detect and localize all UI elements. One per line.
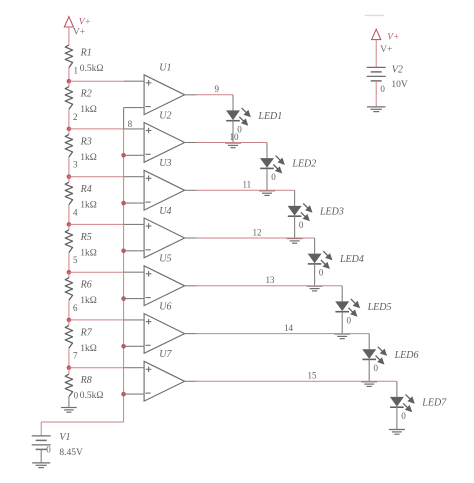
svg-text:0: 0 [271, 172, 276, 182]
svg-text:U3: U3 [159, 158, 171, 169]
svg-text:1kΩ: 1kΩ [80, 248, 97, 258]
svg-text:0.5kΩ: 0.5kΩ [80, 391, 104, 401]
pin - input U2 [124, 154, 145, 156]
ground (V2) [367, 106, 386, 108]
svg-text:14: 14 [284, 323, 294, 333]
wire node 1 to U1 [69, 80, 124, 82]
LED light arrows [303, 203, 309, 209]
svg-text:R5: R5 [80, 232, 92, 243]
wire net 12 [197, 237, 315, 239]
wire [68, 397, 70, 408]
page border mark [365, 14, 385, 16]
svg-text:8.45V: 8.45V [59, 448, 83, 458]
svg-text:6: 6 [73, 303, 78, 313]
LED triangle [362, 349, 376, 359]
LED light arrows [378, 347, 384, 353]
svg-text:0: 0 [380, 84, 385, 94]
battery V1 [40, 422, 42, 436]
svg-text:0.5kΩ: 0.5kΩ [80, 64, 104, 74]
svg-text:1kΩ: 1kΩ [80, 296, 97, 306]
wire node 4 to U4 [69, 223, 124, 225]
wire [68, 300, 70, 320]
wire (anode pin) [294, 190, 296, 206]
wire (cathode pin) [266, 168, 268, 190]
wire (anode pin) [396, 381, 398, 397]
op-amp U5 [144, 266, 185, 306]
pin + input U7 [124, 367, 145, 369]
svg-text:0: 0 [74, 390, 79, 400]
svg-text:R7: R7 [80, 327, 93, 338]
pin + input U6 [124, 319, 145, 321]
wire (cathode pin) [314, 264, 316, 286]
svg-text:1: 1 [74, 66, 79, 76]
junction on signal wire at U2 minus input [121, 153, 126, 158]
wire [68, 109, 70, 129]
wire [68, 348, 70, 368]
wire net 15 [197, 380, 397, 382]
svg-text:13: 13 [266, 275, 276, 285]
LED light arrows [351, 299, 357, 305]
wire (anode pin) [368, 334, 370, 350]
svg-text:LED2: LED2 [291, 159, 316, 170]
LED triangle [226, 110, 240, 120]
wire net 10 [197, 142, 267, 144]
svg-text:7: 7 [73, 351, 78, 361]
svg-text:15: 15 [308, 371, 318, 381]
ground (LED1) [225, 142, 241, 144]
LED light arrows [276, 156, 282, 162]
pin output U7 [185, 380, 197, 382]
svg-text:0: 0 [374, 363, 379, 373]
op-amp U1 [144, 75, 185, 115]
wire net 14 [197, 333, 370, 335]
wire [68, 27, 70, 45]
wire net 13 [197, 285, 343, 287]
svg-text:LED1: LED1 [257, 111, 282, 122]
svg-text:1kΩ: 1kΩ [80, 153, 97, 163]
wire node 2 to U2 [69, 128, 124, 130]
svg-text:1kΩ: 1kΩ [80, 344, 97, 354]
svg-text:V+: V+ [387, 32, 399, 42]
V+ power symbol (right) [372, 29, 381, 39]
ground (LED7) [389, 429, 405, 431]
pin + input U5 [124, 271, 145, 273]
pin - input U3 [124, 202, 145, 204]
wire [68, 81, 70, 87]
ground (R8) [61, 407, 77, 409]
ground (LED4) [307, 285, 323, 287]
pin output U3 [185, 189, 197, 191]
wire [68, 205, 70, 225]
svg-text:2: 2 [73, 112, 78, 122]
junction on signal wire at U6 minus input [121, 344, 126, 349]
svg-text:U1: U1 [159, 63, 171, 74]
wire (anode pin) [341, 286, 343, 302]
svg-text:LED3: LED3 [319, 207, 344, 218]
svg-text:0: 0 [46, 445, 51, 455]
wire [68, 368, 70, 375]
svg-text:R6: R6 [80, 280, 92, 291]
pin output U6 [185, 333, 197, 335]
svg-text:3: 3 [73, 160, 78, 170]
svg-text:V+: V+ [79, 18, 91, 28]
wire (anode pin) [314, 238, 316, 254]
LED triangle [288, 206, 302, 216]
svg-text:U2: U2 [159, 110, 171, 121]
pin - input U4 [124, 250, 145, 252]
svg-text:V2: V2 [392, 65, 403, 76]
pin + input U2 [124, 128, 145, 130]
wire node 7 to U7 [69, 367, 124, 369]
wire (anode pin) [232, 95, 234, 111]
svg-text:R4: R4 [80, 184, 92, 195]
wire [375, 40, 377, 68]
svg-text:V1: V1 [59, 432, 70, 443]
svg-text:LED6: LED6 [394, 350, 419, 361]
svg-text:LED5: LED5 [367, 302, 392, 313]
LED triangle [335, 301, 349, 311]
pin output U5 [185, 285, 197, 287]
junction on signal wire at U3 minus input [121, 201, 126, 206]
pin - input U1 [124, 107, 145, 109]
svg-text:LED7: LED7 [421, 398, 447, 409]
wire [68, 129, 70, 135]
wire node 5 to U5 [69, 271, 124, 273]
pin - input U7 [124, 393, 145, 395]
svg-text:8: 8 [128, 119, 133, 129]
op-amp U6 [144, 314, 185, 354]
op-amp U2 [144, 123, 185, 163]
LED light arrows [323, 251, 329, 257]
svg-text:1kΩ: 1kΩ [80, 105, 97, 115]
ground (LED6) [361, 381, 377, 383]
svg-text:U7: U7 [159, 349, 172, 360]
svg-text:10V: 10V [391, 80, 408, 90]
svg-text:10: 10 [230, 132, 240, 142]
svg-text:U5: U5 [159, 254, 171, 265]
svg-text:4: 4 [73, 207, 78, 217]
LED triangle [390, 397, 404, 407]
pin + input U3 [124, 176, 145, 178]
wire [375, 81, 377, 107]
LED triangle [260, 158, 274, 168]
pin output U2 [185, 142, 197, 144]
battery V2 [367, 66, 386, 68]
pin - input U6 [124, 345, 145, 347]
wire [68, 157, 70, 177]
op-amp U7 [144, 361, 185, 401]
wire [68, 253, 70, 273]
svg-text:0: 0 [347, 315, 352, 325]
svg-text:0: 0 [299, 220, 304, 230]
wire (cathode pin) [368, 359, 370, 381]
svg-text:V+: V+ [380, 45, 392, 55]
svg-text:12: 12 [253, 227, 262, 237]
wire (cathode pin) [396, 407, 398, 429]
pin output U1 [185, 94, 197, 96]
wire [68, 68, 70, 82]
wire (cathode pin) [232, 121, 234, 143]
wire net 11 [197, 189, 295, 191]
ground (V1) [32, 462, 50, 464]
wire [68, 177, 70, 183]
wire (cathode pin) [341, 312, 343, 334]
svg-text:5: 5 [73, 255, 78, 265]
svg-text:9: 9 [215, 84, 220, 94]
pin + input U1 [124, 80, 145, 82]
svg-text:R1: R1 [80, 47, 92, 58]
wire [68, 224, 70, 230]
junction on signal wire at U5 minus input [121, 296, 126, 301]
pin output U4 [185, 237, 197, 239]
svg-text:LED4: LED4 [339, 254, 364, 265]
ground (LED2) [259, 190, 275, 192]
wire [68, 320, 70, 326]
wire (anode pin) [266, 143, 268, 159]
svg-text:0: 0 [401, 411, 406, 421]
svg-text:V+: V+ [73, 27, 85, 37]
wire [40, 449, 42, 463]
wire node 6 to U6 [69, 319, 124, 321]
resistor R1 [65, 45, 72, 68]
op-amp U3 [144, 170, 185, 210]
svg-text:R2: R2 [80, 89, 92, 100]
svg-text:R3: R3 [80, 136, 92, 147]
pin - input U5 [124, 298, 145, 300]
wire net 9 [197, 94, 233, 96]
wire [68, 272, 70, 278]
pin + input U4 [124, 223, 145, 225]
wire (V1 signal to minus inputs) [123, 108, 125, 129]
junction on signal wire at U4 minus input [121, 249, 126, 254]
svg-text:U6: U6 [159, 301, 171, 312]
wire node 3 to U3 [69, 176, 124, 178]
junction on signal wire at U7 minus input [121, 392, 126, 397]
LED triangle [308, 254, 322, 264]
LED light arrows [406, 394, 412, 400]
op-amp U4 [144, 218, 185, 258]
svg-text:U4: U4 [159, 206, 171, 217]
svg-text:11: 11 [243, 180, 252, 190]
wire (cathode pin) [294, 216, 296, 238]
svg-text:R8: R8 [80, 375, 92, 386]
LED light arrows [242, 108, 248, 114]
svg-text:0: 0 [319, 268, 324, 278]
V+ power symbol (left) [64, 17, 73, 27]
svg-text:1kΩ: 1kΩ [80, 201, 97, 211]
ground (LED5) [334, 333, 350, 335]
ground (LED3) [287, 238, 303, 240]
